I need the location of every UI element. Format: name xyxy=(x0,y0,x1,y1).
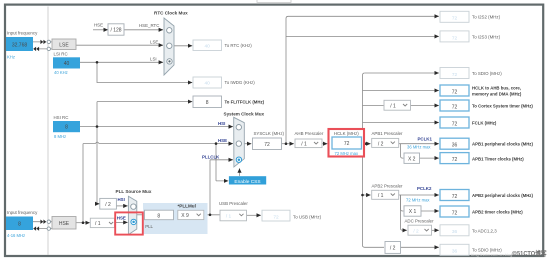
svg-text:72 MHz max: 72 MHz max xyxy=(335,151,359,156)
svg-text:LSI: LSI xyxy=(150,56,157,61)
svg-text:8: 8 xyxy=(65,125,68,131)
svg-text:72: 72 xyxy=(452,72,458,78)
svg-text:HSE: HSE xyxy=(117,215,126,220)
svg-text:memory and DMA (MHz): memory and DMA (MHz) xyxy=(472,92,522,97)
svg-text:/ 2: / 2 xyxy=(105,202,111,208)
svg-text:Enable CSS: Enable CSS xyxy=(234,179,260,185)
svg-text:/ 2: / 2 xyxy=(413,229,419,235)
svg-text:HSI RC: HSI RC xyxy=(54,115,69,120)
svg-text:RTC Clock Mux: RTC Clock Mux xyxy=(154,11,188,16)
svg-text:/ 1: / 1 xyxy=(390,103,396,109)
svg-text:40 KHz: 40 KHz xyxy=(54,70,68,75)
svg-text:PLLCLK: PLLCLK xyxy=(202,155,220,160)
svg-text:To SDIO (MHz): To SDIO (MHz) xyxy=(472,71,502,76)
svg-text:72: 72 xyxy=(452,89,458,95)
svg-text:X 1: X 1 xyxy=(409,209,417,215)
svg-text:40: 40 xyxy=(205,44,211,50)
svg-text:PCLK1: PCLK1 xyxy=(418,137,433,142)
svg-text:36: 36 xyxy=(452,249,458,255)
svg-text:USB Prescaler: USB Prescaler xyxy=(219,201,248,206)
svg-text:32.768: 32.768 xyxy=(12,42,28,48)
svg-text:APB1 peripheral clocks (MHz): APB1 peripheral clocks (MHz) xyxy=(472,142,533,147)
svg-text:AHB Prescaler: AHB Prescaler xyxy=(295,131,324,136)
svg-text:72: 72 xyxy=(273,214,279,220)
svg-text:72: 72 xyxy=(452,194,458,200)
svg-text:HSE: HSE xyxy=(94,23,103,28)
svg-text:4-16 MHz: 4-16 MHz xyxy=(7,233,25,238)
svg-text:APB2 peripheral clocks (MHz): APB2 peripheral clocks (MHz) xyxy=(472,193,533,198)
svg-text:To FLITFCLK (MHz): To FLITFCLK (MHz) xyxy=(225,100,265,105)
svg-text:@51CTO博客: @51CTO博客 xyxy=(512,249,548,258)
svg-text:36: 36 xyxy=(452,143,458,149)
svg-text:PLL Source Mux: PLL Source Mux xyxy=(116,189,152,194)
svg-text:8: 8 xyxy=(157,213,160,219)
svg-text:/ 1: / 1 xyxy=(301,142,307,148)
svg-text:Input frequency: Input frequency xyxy=(7,31,38,36)
svg-text:72 MHz max: 72 MHz max xyxy=(406,197,430,202)
svg-text:LSE: LSE xyxy=(59,42,69,48)
svg-text:/ 1: / 1 xyxy=(226,214,232,220)
svg-text:36 MHz max: 36 MHz max xyxy=(407,144,431,149)
svg-text:APB2 Prescaler: APB2 Prescaler xyxy=(372,184,404,189)
svg-text:SYSCLK (MHz): SYSCLK (MHz) xyxy=(254,131,285,136)
svg-text:HCLK to AHB bus, core,: HCLK to AHB bus, core, xyxy=(472,86,521,91)
svg-text:72: 72 xyxy=(344,141,350,147)
svg-text:72: 72 xyxy=(452,35,458,41)
svg-text:LSI RC: LSI RC xyxy=(54,51,68,56)
svg-text:Input frequency: Input frequency xyxy=(7,210,38,215)
svg-text:HSE: HSE xyxy=(218,138,227,143)
svg-text:To IWDG (KHz): To IWDG (KHz) xyxy=(225,80,256,85)
svg-text:APB1 Timer clocks (MHz): APB1 Timer clocks (MHz) xyxy=(472,156,524,161)
svg-text:To I2S3 (MHz): To I2S3 (MHz) xyxy=(472,34,501,39)
svg-text:HSE_RTC: HSE_RTC xyxy=(139,23,159,28)
svg-text:ADC Prescaler: ADC Prescaler xyxy=(405,219,435,224)
svg-text:8 MHz: 8 MHz xyxy=(54,134,66,139)
svg-text:*PLLMul: *PLLMul xyxy=(178,204,196,209)
svg-text:APB1 Prescaler: APB1 Prescaler xyxy=(372,131,404,136)
svg-text:LSE: LSE xyxy=(150,39,158,44)
svg-text:72: 72 xyxy=(452,157,458,163)
svg-text:bIog.51cto.com.cn.blog: bIog.51cto.com.cn.blog xyxy=(471,252,512,257)
svg-text:/ 1: / 1 xyxy=(378,193,384,199)
svg-text:/ 2: / 2 xyxy=(378,141,384,147)
svg-text:KHz: KHz xyxy=(7,55,15,60)
svg-text:To I2S2 (MHz): To I2S2 (MHz) xyxy=(472,14,501,19)
svg-text:APB2 timer clocks (MHz): APB2 timer clocks (MHz) xyxy=(472,209,523,214)
svg-text:HSI: HSI xyxy=(218,121,225,126)
svg-text:PCLK2: PCLK2 xyxy=(417,186,432,191)
svg-text:X 9: X 9 xyxy=(181,213,189,219)
svg-text:40: 40 xyxy=(64,61,70,67)
svg-text:/ 128: / 128 xyxy=(110,28,121,34)
svg-text:HCLK (MHz): HCLK (MHz) xyxy=(334,131,359,136)
svg-text:/ 1: / 1 xyxy=(95,221,101,227)
svg-text:To Cortex System timer (MHz): To Cortex System timer (MHz) xyxy=(472,104,533,109)
svg-text:FCLK (MHz): FCLK (MHz) xyxy=(472,120,497,125)
svg-text:40: 40 xyxy=(205,81,211,87)
svg-text:To USB (MHz): To USB (MHz) xyxy=(293,214,322,219)
svg-text:System Clock Mux: System Clock Mux xyxy=(224,111,265,116)
svg-text:HSE: HSE xyxy=(59,221,70,227)
svg-text:/ 2: / 2 xyxy=(390,246,396,252)
svg-text:HSI: HSI xyxy=(118,197,125,202)
svg-text:8: 8 xyxy=(18,222,21,228)
svg-text:72: 72 xyxy=(452,104,458,110)
svg-text:72: 72 xyxy=(452,121,458,127)
svg-text:72: 72 xyxy=(452,210,458,216)
svg-text:X 2: X 2 xyxy=(408,156,416,162)
svg-text:36: 36 xyxy=(452,229,458,235)
svg-text:72: 72 xyxy=(264,142,270,148)
svg-text:8: 8 xyxy=(206,100,209,106)
svg-text:PLL: PLL xyxy=(145,224,153,229)
svg-text:To RTC (KHz): To RTC (KHz) xyxy=(225,43,253,48)
svg-text:To ADC1,2,3: To ADC1,2,3 xyxy=(472,229,497,234)
svg-text:72: 72 xyxy=(452,16,458,22)
